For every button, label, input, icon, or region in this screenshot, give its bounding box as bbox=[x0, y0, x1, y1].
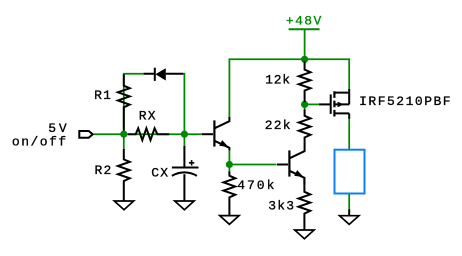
svg-text:3k3: 3k3 bbox=[268, 198, 295, 213]
svg-text:22k: 22k bbox=[265, 118, 292, 133]
svg-text:470k: 470k bbox=[237, 178, 276, 193]
svg-text:on/off: on/off bbox=[12, 135, 68, 150]
svg-text:RX: RX bbox=[139, 109, 157, 124]
svg-text:12k: 12k bbox=[265, 73, 291, 88]
svg-text:IRF5210PBF: IRF5210PBF bbox=[359, 94, 452, 109]
svg-text:+48V: +48V bbox=[286, 13, 323, 28]
svg-text:CX: CX bbox=[151, 166, 169, 181]
svg-text:R2: R2 bbox=[95, 163, 113, 178]
svg-text:5V: 5V bbox=[48, 121, 69, 136]
svg-text:R1: R1 bbox=[94, 88, 112, 103]
